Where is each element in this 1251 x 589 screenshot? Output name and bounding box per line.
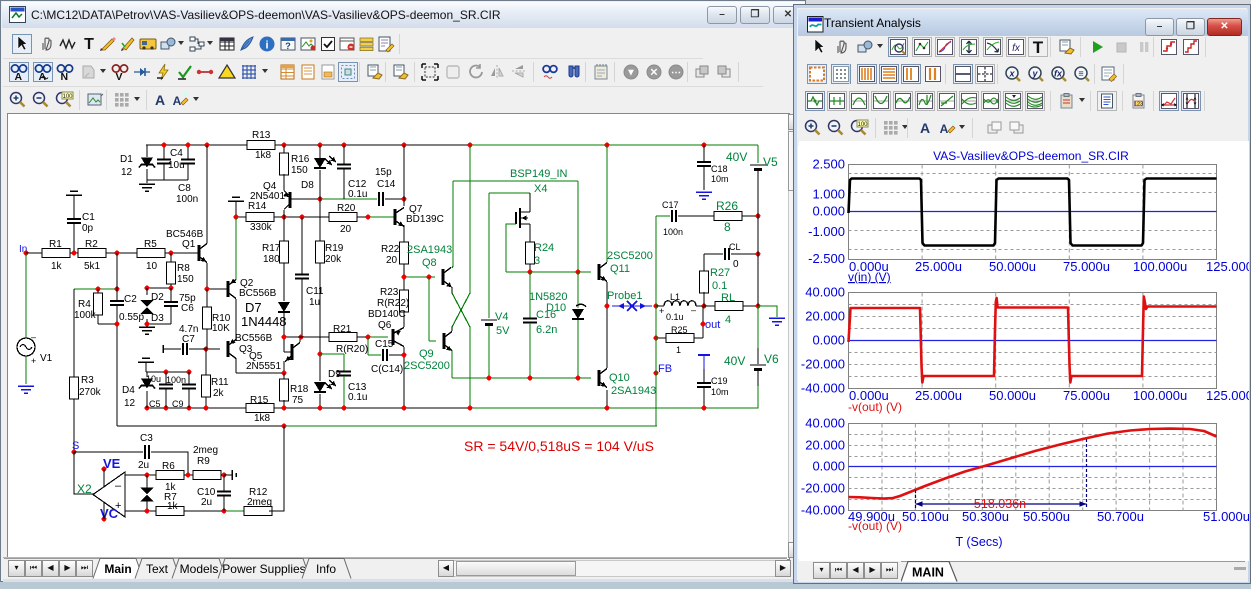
svg-text:40.000: 40.000 bbox=[805, 285, 845, 300]
svg-text:-1.000: -1.000 bbox=[808, 224, 845, 239]
svg-text:50.500u: 50.500u bbox=[1023, 509, 1070, 524]
svg-text:R6: R6 bbox=[162, 461, 175, 472]
svg-text:50.700u: 50.700u bbox=[1097, 509, 1144, 524]
left window: Micro-Cap schematic editor bbox=[0, 0, 806, 582]
svg-text:0.000: 0.000 bbox=[812, 204, 845, 219]
resistor R27 bbox=[703, 254, 705, 272]
svg-text:R11: R11 bbox=[211, 377, 229, 388]
svg-text:R13: R13 bbox=[252, 130, 271, 141]
resistor R11 bbox=[205, 349, 207, 376]
svg-text:20k: 20k bbox=[325, 254, 342, 265]
svg-text:out: out bbox=[705, 319, 720, 331]
source V6 bbox=[757, 306, 759, 348]
svg-text:50.000u: 50.000u bbox=[989, 388, 1036, 403]
svg-text:C17: C17 bbox=[662, 200, 679, 210]
svg-text:100n: 100n bbox=[663, 227, 683, 237]
resistor R5 bbox=[137, 249, 165, 258]
capacitor C9 bbox=[188, 372, 190, 384]
svg-text:A: A bbox=[173, 94, 182, 108]
svg-text:20.000: 20.000 bbox=[805, 309, 845, 324]
svg-text:C16: C16 bbox=[536, 309, 556, 321]
svg-text:-20.000: -20.000 bbox=[801, 481, 845, 496]
subckt X4 box BSP149_IN bbox=[453, 180, 578, 182]
svg-text:-40.000: -40.000 bbox=[801, 503, 845, 518]
wire D7 output row bbox=[284, 336, 334, 338]
resistor R21 bbox=[329, 333, 357, 342]
svg-text:R1: R1 bbox=[49, 239, 62, 250]
opamp X2 bbox=[93, 472, 125, 517]
svg-text:S: S bbox=[72, 440, 79, 452]
mosfet X4 bbox=[489, 192, 530, 194]
svg-text:0.1u: 0.1u bbox=[348, 189, 367, 200]
wire Q3 base row bbox=[206, 348, 220, 350]
ground above C1 bbox=[66, 191, 82, 195]
svg-text:0.1u: 0.1u bbox=[348, 392, 367, 403]
svg-text:A: A bbox=[940, 122, 949, 136]
svg-text:Text: Text bbox=[146, 562, 169, 576]
svg-text:2SC5200: 2SC5200 bbox=[404, 360, 450, 372]
svg-text:R26: R26 bbox=[716, 199, 738, 213]
svg-text:R22: R22 bbox=[381, 244, 400, 255]
svg-text:BSP149_IN: BSP149_IN bbox=[510, 168, 568, 180]
svg-text:+: + bbox=[31, 356, 36, 366]
svg-text:≡: ≡ bbox=[1078, 69, 1083, 79]
svg-text:100: 100 bbox=[857, 122, 868, 128]
resistor R6 bbox=[156, 471, 184, 480]
capacitor C3 bbox=[74, 451, 143, 453]
svg-text:0: 0 bbox=[733, 259, 739, 270]
svg-text:C14: C14 bbox=[377, 179, 396, 190]
svg-text:R24: R24 bbox=[534, 242, 554, 254]
svg-text:D2: D2 bbox=[151, 292, 164, 303]
svg-text:R8: R8 bbox=[177, 263, 190, 274]
svg-text:1u: 1u bbox=[309, 297, 320, 308]
wire out node bbox=[702, 306, 704, 338]
svg-text:0.1: 0.1 bbox=[712, 280, 727, 292]
svg-text:-v(out) (V): -v(out) (V) bbox=[848, 400, 902, 414]
svg-text:VC: VC bbox=[100, 506, 119, 521]
svg-text:100: 100 bbox=[62, 94, 73, 100]
svg-text:✕: ✕ bbox=[650, 68, 658, 79]
wire crossover X bbox=[452, 293, 470, 327]
svg-text:R21: R21 bbox=[333, 324, 352, 335]
plot 2 red square wave -v(out) bbox=[849, 297, 1217, 383]
ground under V1 (blue) bbox=[18, 386, 34, 393]
wire C14/Q7 collector column bbox=[403, 145, 405, 206]
svg-text:100k: 100k bbox=[74, 310, 97, 321]
wire D2/C6 bottom row + ground bbox=[147, 323, 171, 325]
diode D2/D3 pair bbox=[146, 288, 148, 295]
svg-text:R16: R16 bbox=[291, 154, 310, 165]
svg-text:SR = 54V/0,518uS = 104 V/uS: SR = 54V/0,518uS = 104 V/uS bbox=[464, 438, 654, 454]
resistor R4 bbox=[97, 289, 99, 294]
svg-text:10u: 10u bbox=[168, 160, 185, 171]
wire top rail left (black) bbox=[146, 144, 252, 146]
svg-text:FB: FB bbox=[658, 363, 672, 375]
plot 2 horizontal grid bbox=[849, 304, 1217, 306]
resistor R9 bbox=[193, 471, 221, 480]
svg-text:-v(out) (V): -v(out) (V) bbox=[848, 519, 902, 533]
svg-text:R2: R2 bbox=[85, 239, 98, 250]
svg-text:R5: R5 bbox=[144, 239, 157, 250]
svg-text:R17: R17 bbox=[262, 243, 281, 254]
svg-text:75: 75 bbox=[292, 395, 304, 406]
svg-text:R20: R20 bbox=[337, 203, 356, 214]
resistor R14 bbox=[246, 213, 274, 222]
svg-text:75.000u: 75.000u bbox=[1063, 388, 1110, 403]
svg-text:15p: 15p bbox=[375, 167, 392, 178]
svg-text:50.000u: 50.000u bbox=[989, 259, 1036, 274]
svg-text:C9: C9 bbox=[172, 399, 184, 409]
ground at RL (blue) bbox=[758, 306, 777, 317]
resistor R19 bbox=[319, 199, 321, 242]
svg-text:C15: C15 bbox=[375, 339, 394, 350]
svg-text:1k8: 1k8 bbox=[255, 150, 272, 161]
transistor Q6 leads bbox=[403, 277, 405, 291]
plot 2 zero line bbox=[849, 340, 1217, 342]
svg-text:330k: 330k bbox=[250, 222, 273, 233]
svg-text:R18: R18 bbox=[290, 384, 309, 395]
capacitor C4 bbox=[163, 145, 165, 159]
svg-text:y: y bbox=[1031, 69, 1038, 79]
resistor R16 bbox=[283, 145, 285, 154]
source V5 bbox=[757, 145, 759, 163]
capacitor C14 bbox=[379, 192, 383, 206]
svg-text:R15: R15 bbox=[250, 395, 269, 406]
svg-text:R25: R25 bbox=[671, 325, 688, 335]
wire Q1 collector bbox=[206, 145, 208, 244]
svg-text:R3: R3 bbox=[81, 375, 94, 386]
svg-text:150: 150 bbox=[291, 165, 308, 176]
plot 3 measurement marker bbox=[915, 490, 917, 508]
resistor R8 bbox=[170, 253, 172, 263]
resistor R18 bbox=[283, 373, 285, 380]
resistor R24 bbox=[529, 224, 531, 244]
diode pair (limiter) bbox=[146, 475, 148, 488]
svg-text:10m: 10m bbox=[711, 387, 729, 397]
capacitor C1 bbox=[67, 219, 81, 223]
svg-text:125.000u: 125.000u bbox=[1206, 388, 1249, 403]
node VC bbox=[102, 517, 107, 522]
wire Q2 collector to Q3 bbox=[235, 299, 237, 340]
right window: Transient Analysis bbox=[793, 4, 1251, 584]
wire rail-to-rail green column bbox=[469, 145, 471, 293]
svg-text:2.500: 2.500 bbox=[812, 157, 845, 172]
ground under C18 (blue) bbox=[696, 192, 712, 199]
svg-text:-2.500: -2.500 bbox=[808, 251, 845, 266]
resistor R15 bbox=[246, 404, 274, 413]
transistor Q8 bbox=[442, 269, 445, 285]
svg-text:Q8: Q8 bbox=[422, 257, 437, 269]
svg-text:2N5551: 2N5551 bbox=[246, 361, 281, 372]
capacitor C13 bbox=[320, 353, 344, 355]
svg-text:1N4448: 1N4448 bbox=[241, 314, 287, 329]
wire feedback column bbox=[655, 306, 657, 426]
wire Q5 emitter bbox=[283, 361, 285, 373]
svg-text:123: 123 bbox=[1134, 102, 1143, 108]
svg-text:–: – bbox=[115, 480, 122, 492]
svg-text:D8: D8 bbox=[301, 180, 314, 191]
svg-text:?: ? bbox=[285, 41, 291, 51]
resistor R26 bbox=[714, 212, 742, 221]
svg-text:6.2n: 6.2n bbox=[536, 324, 557, 336]
wire V5 column bbox=[757, 216, 759, 306]
svg-text:T: T bbox=[84, 36, 94, 53]
wire D4/C5/C9 top row bbox=[146, 371, 189, 373]
svg-text:+: + bbox=[659, 306, 664, 316]
svg-text:5k1: 5k1 bbox=[84, 261, 101, 272]
svg-text:Main: Main bbox=[104, 562, 131, 576]
svg-text:v(in) (V): v(in) (V) bbox=[848, 270, 891, 284]
plot 1 black square wave v(in) bbox=[849, 179, 1217, 246]
svg-text:R19: R19 bbox=[325, 243, 344, 254]
wire Q11 emitter / Q10 collector bbox=[606, 282, 608, 368]
svg-text:2u: 2u bbox=[138, 460, 149, 471]
svg-text:C11: C11 bbox=[306, 286, 324, 297]
svg-text:R9: R9 bbox=[197, 456, 210, 467]
svg-text:RL: RL bbox=[721, 292, 735, 304]
svg-text:fx: fx bbox=[1054, 69, 1063, 79]
wire inverting row bbox=[125, 474, 161, 476]
resistor R3 bbox=[73, 289, 75, 378]
svg-text:1: 1 bbox=[676, 345, 681, 355]
svg-text:C19: C19 bbox=[711, 376, 728, 386]
svg-text:100n: 100n bbox=[176, 194, 198, 205]
svg-text:D4: D4 bbox=[122, 385, 135, 396]
wire opamp output bbox=[74, 452, 93, 494]
svg-text:V6: V6 bbox=[764, 352, 779, 366]
ground under D1 bbox=[139, 184, 155, 191]
resistor R25 bbox=[656, 337, 666, 339]
svg-text:100n: 100n bbox=[166, 375, 186, 385]
svg-text:125.000u: 125.000u bbox=[1206, 259, 1249, 274]
wire Q8 collector to box bbox=[452, 181, 453, 268]
svg-text:V1: V1 bbox=[40, 353, 53, 364]
svg-text:R14: R14 bbox=[248, 201, 267, 212]
ground above R14 bbox=[228, 197, 244, 201]
svg-text:D9: D9 bbox=[328, 369, 341, 380]
wire driver row (Q11 base) bbox=[506, 271, 591, 273]
svg-text:CL: CL bbox=[729, 242, 741, 252]
svg-text:4: 4 bbox=[725, 314, 731, 326]
inductor L1 bbox=[656, 305, 664, 307]
svg-text:2N5401: 2N5401 bbox=[250, 191, 285, 202]
node S bbox=[72, 450, 77, 455]
capacitor C19 bbox=[698, 354, 710, 356]
svg-text:R(R22): R(R22) bbox=[377, 298, 409, 309]
svg-text:A: A bbox=[920, 120, 930, 136]
svg-text:Q1: Q1 bbox=[182, 239, 196, 250]
wire Q8 emitter bbox=[451, 287, 453, 293]
svg-text:8: 8 bbox=[724, 220, 731, 234]
wire R14 row bbox=[236, 216, 246, 218]
svg-text:180: 180 bbox=[263, 254, 280, 265]
svg-text:N: N bbox=[61, 71, 69, 82]
svg-text:⋯: ⋯ bbox=[671, 68, 681, 79]
svg-text:25.000u: 25.000u bbox=[915, 259, 962, 274]
svg-text:C8: C8 bbox=[178, 183, 191, 194]
svg-text:C(C14): C(C14) bbox=[371, 364, 403, 375]
resistor R13 bbox=[247, 141, 275, 150]
svg-text:20: 20 bbox=[340, 224, 352, 235]
svg-text:C6: C6 bbox=[181, 303, 194, 314]
svg-text:Q6: Q6 bbox=[378, 320, 392, 331]
plot 3 vertical grid bbox=[881, 424, 883, 511]
svg-text:x: x bbox=[1008, 69, 1015, 79]
capacitor C15 bbox=[367, 337, 369, 355]
svg-text:2meg: 2meg bbox=[193, 445, 218, 456]
wire Q9 emitter to bottom row bbox=[451, 350, 453, 378]
plot 3 zero line bbox=[849, 466, 1217, 468]
diode D9 (LED) bbox=[319, 354, 321, 381]
svg-text:A: A bbox=[15, 71, 23, 82]
resistor R7 bbox=[156, 507, 184, 516]
svg-text:-40.000: -40.000 bbox=[801, 381, 845, 396]
transistor Q10 bbox=[598, 370, 601, 386]
transistor Q4 bbox=[283, 174, 285, 190]
capacitor C6 bbox=[170, 288, 172, 301]
capacitor C17 bbox=[655, 216, 657, 306]
svg-text:150: 150 bbox=[177, 274, 194, 285]
capacitor C11 bbox=[301, 217, 303, 274]
svg-text:C5: C5 bbox=[149, 399, 161, 409]
svg-text:25.000u: 25.000u bbox=[915, 388, 962, 403]
resistor R20 bbox=[329, 213, 357, 222]
svg-text:40V: 40V bbox=[726, 150, 747, 164]
resistor R22 bbox=[403, 225, 405, 244]
svg-text:1.000: 1.000 bbox=[812, 187, 845, 202]
svg-text:BC556B: BC556B bbox=[239, 288, 277, 299]
capacitor C10 bbox=[223, 475, 225, 491]
svg-text:Q9: Q9 bbox=[419, 348, 434, 360]
wire Q10 emitter bbox=[606, 390, 608, 408]
plot 1 zero line bbox=[849, 211, 1217, 213]
svg-text:R27: R27 bbox=[710, 267, 730, 279]
diode D8 (LED) bbox=[319, 145, 321, 158]
svg-text:–: – bbox=[31, 332, 36, 342]
svg-text:VAS-Vasiliev&OPS-deemon_SR.CIR: VAS-Vasiliev&OPS-deemon_SR.CIR bbox=[933, 149, 1129, 163]
svg-text:V4: V4 bbox=[495, 311, 508, 323]
plot 1 vertical grid bbox=[921, 165, 923, 260]
svg-text:2k: 2k bbox=[213, 388, 225, 399]
plot 1 frame bbox=[849, 165, 1217, 260]
source V1 bbox=[25, 253, 27, 338]
svg-text:0.1u: 0.1u bbox=[666, 312, 684, 322]
svg-text:D1: D1 bbox=[120, 154, 133, 165]
diode D7 bbox=[283, 266, 285, 301]
svg-text:i: i bbox=[265, 40, 268, 52]
plot 2 frame bbox=[849, 293, 1217, 389]
svg-text:100.000u: 100.000u bbox=[1133, 388, 1187, 403]
ground above D4 bbox=[138, 358, 154, 362]
diode D4 (zener) bbox=[146, 372, 148, 377]
capacitor C18 bbox=[703, 145, 705, 161]
plot 3 horizontal grid bbox=[849, 434, 1217, 436]
svg-text:0.55p: 0.55p bbox=[119, 312, 144, 323]
capacitor C16 bbox=[529, 272, 531, 318]
svg-text:5V: 5V bbox=[496, 325, 510, 337]
svg-text:50.300u: 50.300u bbox=[962, 509, 1009, 524]
svg-text:2u: 2u bbox=[201, 497, 212, 508]
svg-text:BD139C: BD139C bbox=[406, 214, 444, 225]
svg-text:BC556B: BC556B bbox=[235, 333, 273, 344]
capacitor C5 bbox=[165, 372, 167, 384]
wire R4/C2 bottom row bbox=[98, 323, 117, 325]
svg-text:▼: ▼ bbox=[626, 68, 636, 79]
svg-text:D7: D7 bbox=[245, 300, 262, 315]
svg-text:270k: 270k bbox=[79, 387, 102, 398]
transistor Q3 bbox=[227, 341, 230, 357]
svg-text:C1: C1 bbox=[82, 212, 95, 223]
capacitor C2 bbox=[116, 253, 118, 301]
plot 3 frame bbox=[849, 424, 1217, 511]
svg-text:10u: 10u bbox=[146, 374, 161, 384]
wire input row bbox=[26, 252, 42, 254]
wire D1/C4/C8 bottom row bbox=[147, 179, 188, 181]
svg-text:fx: fx bbox=[1012, 43, 1021, 54]
svg-text:Q11: Q11 bbox=[610, 263, 630, 275]
svg-text:1k: 1k bbox=[51, 261, 63, 272]
source V4 bbox=[488, 193, 490, 318]
svg-text:T: T bbox=[1033, 38, 1044, 57]
transistor Q9 bbox=[428, 277, 430, 341]
wire Q1 emitter to Q2 base bbox=[206, 263, 208, 289]
resistor R12 bbox=[244, 507, 272, 516]
capacitor C12 bbox=[343, 145, 345, 164]
wire Q2 emitter (green column from R14 node) bbox=[235, 217, 237, 280]
svg-text:1k: 1k bbox=[167, 501, 179, 512]
svg-text:C7: C7 bbox=[182, 334, 195, 345]
wire top rail right (green) bbox=[470, 144, 758, 146]
svg-text:51.000u: 51.000u bbox=[1203, 509, 1249, 524]
node dots top rail bbox=[162, 143, 167, 148]
plot 1 horizontal grid bbox=[849, 173, 1217, 175]
svg-text:20: 20 bbox=[386, 255, 398, 266]
svg-text:C18: C18 bbox=[711, 164, 728, 174]
svg-text:40V: 40V bbox=[724, 354, 745, 368]
resistor RL bbox=[704, 305, 715, 307]
svg-text:1k8: 1k8 bbox=[254, 413, 271, 424]
transistor Q11 bbox=[598, 264, 601, 280]
transistor Q1 bbox=[198, 245, 201, 261]
diode D1 (zener) bbox=[146, 145, 148, 157]
svg-text:V5: V5 bbox=[763, 155, 778, 169]
svg-text:100.000u: 100.000u bbox=[1133, 259, 1187, 274]
wire Q8 base row bbox=[404, 276, 435, 278]
transistor Q5 bbox=[283, 337, 285, 352]
transistor Q7 bbox=[394, 209, 397, 225]
svg-text:MAIN: MAIN bbox=[912, 566, 944, 580]
svg-text:R4: R4 bbox=[78, 299, 91, 310]
plot 3 red slew curve -v(out) bbox=[849, 429, 1217, 499]
resistor R10 bbox=[206, 289, 208, 308]
wire non-inverting row bbox=[125, 510, 161, 512]
svg-text:0.000: 0.000 bbox=[812, 459, 845, 474]
svg-text:75.000u: 75.000u bbox=[1063, 259, 1110, 274]
wire X4 gate bbox=[506, 224, 516, 272]
svg-text:10m: 10m bbox=[711, 174, 729, 184]
svg-text:A: A bbox=[155, 92, 165, 108]
svg-text:-20.000: -20.000 bbox=[801, 357, 845, 372]
resistor R17 bbox=[283, 217, 285, 242]
svg-text:T (Secs): T (Secs) bbox=[956, 535, 1003, 549]
svg-text:12: 12 bbox=[121, 167, 133, 178]
svg-text:3: 3 bbox=[534, 255, 540, 267]
desktop background strip bbox=[0, 578, 1251, 589]
svg-text:10: 10 bbox=[146, 261, 158, 272]
wire feedback row bbox=[117, 425, 284, 427]
node VE bbox=[102, 467, 107, 472]
